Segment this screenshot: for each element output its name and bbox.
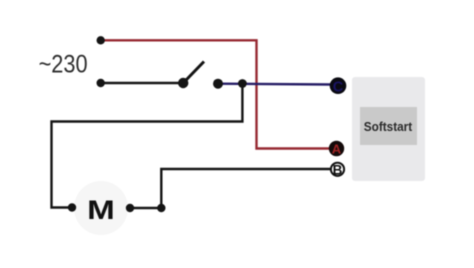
svg-text:A: A (332, 142, 342, 157)
svg-text:M: M (87, 196, 115, 225)
svg-text:~230: ~230 (39, 50, 88, 78)
svg-text:B: B (333, 162, 343, 177)
svg-text:Softstart: Softstart (364, 120, 413, 134)
svg-text:C: C (333, 80, 344, 96)
